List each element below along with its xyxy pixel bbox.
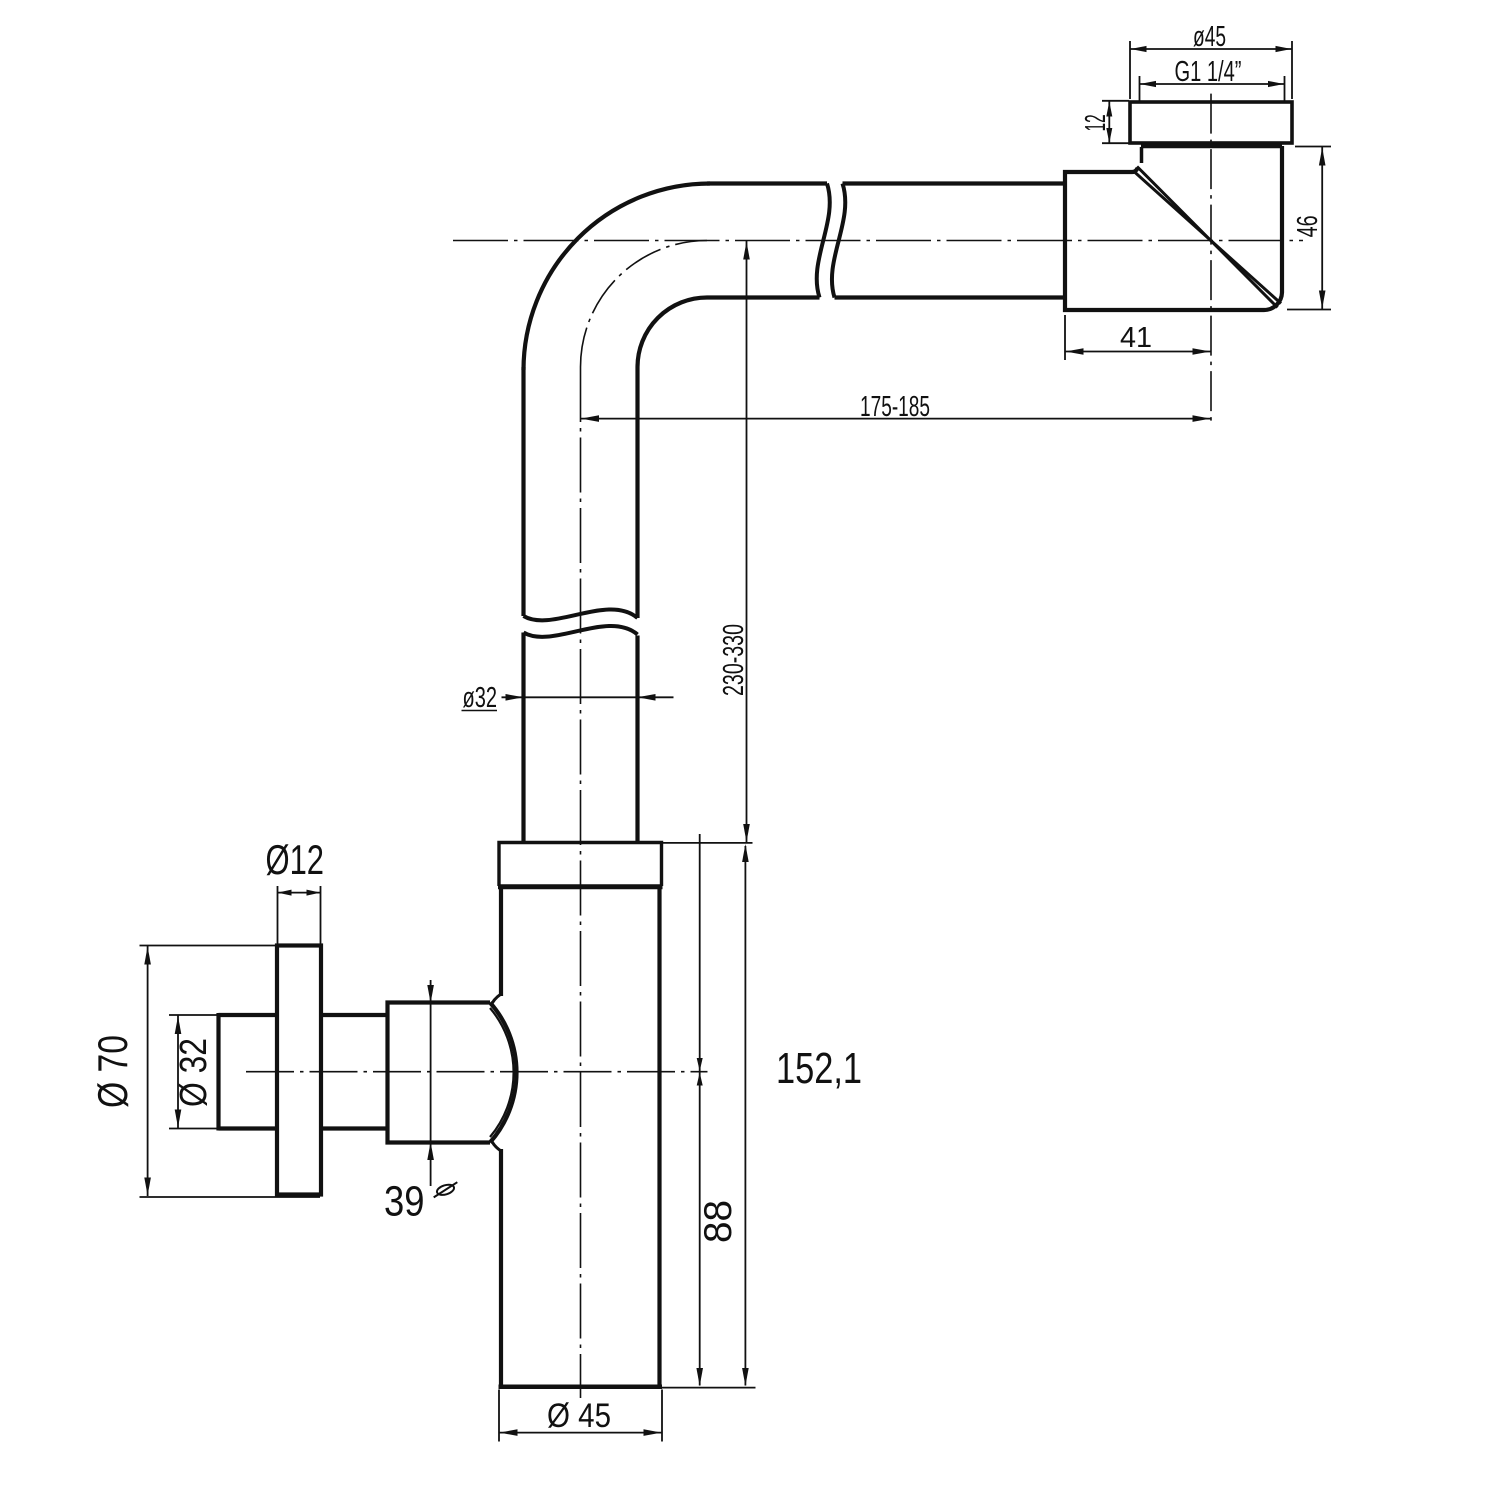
dim Ø32 pipe arrow right — [638, 694, 656, 701]
centerline vertical pipe / trap body axis — [580, 367, 582, 1398]
centerline outlet fitting axis — [1210, 94, 1212, 425]
trap cap seal thick line — [498, 884, 663, 889]
svg-text:230-330: 230-330 — [718, 624, 750, 696]
trap body left wall upper — [499, 889, 503, 996]
dim 46 arrow bottom — [1319, 291, 1326, 309]
vertical pipe left edge lower — [521, 633, 525, 844]
inlet nut bulge outer arc — [490, 1003, 517, 1143]
elbow inner arc — [638, 298, 708, 368]
horizontal pipe break squiggle right — [832, 184, 845, 298]
dim Ø32 pipe dim line — [502, 696, 674, 698]
trap body left wall lower — [499, 1149, 503, 1385]
dim 88 upper opposing arrow — [697, 1058, 703, 1071]
dim 39 small diameter symbol — [431, 1181, 460, 1198]
svg-text:46: 46 — [1292, 215, 1324, 237]
dim 230-330 arrow bottom — [743, 824, 750, 842]
dim Ø12 arrow left — [278, 890, 292, 896]
dim 41 dim line — [1065, 351, 1211, 353]
dim Ø45 top ext line left — [1129, 41, 1131, 99]
dim 39 dim line — [430, 980, 432, 1186]
elbow outer arc — [524, 184, 711, 371]
dim G1 dim line — [1140, 83, 1285, 85]
inlet nut bulge inner arc — [490, 1008, 514, 1137]
svg-text:Ø 70: Ø 70 — [89, 1035, 136, 1108]
dim Ø45 body arrow right — [644, 1429, 662, 1436]
dim 88 arrow at centerline — [697, 1073, 703, 1086]
horizontal pipe top edge right segment — [843, 181, 1066, 185]
dim Ø70 dim line — [147, 946, 149, 1196]
dim 12 ext line bottom — [1102, 142, 1129, 144]
ext line trap body bottom — [662, 1387, 756, 1389]
dim Ø12 ext line left — [277, 886, 279, 944]
dim G1 ext line left — [1139, 76, 1141, 101]
inlet bulge top fillet — [491, 994, 501, 1006]
svg-text:Ø 45: Ø 45 — [547, 1397, 611, 1435]
horizontal pipe top edge left segment — [707, 181, 827, 185]
svg-text:12: 12 — [1080, 114, 1112, 131]
trap cap outline — [499, 843, 662, 887]
svg-text:39: 39 — [384, 1178, 425, 1226]
outlet fitting miter seam line 1 — [1137, 167, 1278, 308]
dim 12 arrow top — [1106, 102, 1112, 117]
dim 88 arrow bottom — [696, 1368, 703, 1386]
dim 230-330 arrow top — [743, 242, 750, 260]
dim 46 arrow top — [1319, 148, 1326, 166]
dim Ø32 pipe arrow left — [506, 694, 524, 701]
outlet fitting body outline — [1065, 146, 1282, 310]
dim Ø12 ext line right — [320, 886, 322, 944]
svg-text:41: 41 — [1120, 322, 1152, 354]
ext line trap cap top — [662, 842, 753, 844]
dim Ø45 top ext line right — [1291, 41, 1293, 99]
outlet fitting body corner — [1132, 168, 1138, 172]
dim 46 ext line bottom — [1287, 309, 1331, 311]
svg-text:Ø12: Ø12 — [266, 836, 325, 883]
wall stub bottom edge — [219, 1126, 278, 1130]
trap body right wall — [657, 889, 661, 1385]
dim G1 arrow right — [1268, 81, 1284, 87]
dim Ø32 stub dim line — [177, 1016, 179, 1129]
wall flange rosette — [277, 946, 321, 1195]
vertical pipe right edge upper — [635, 367, 639, 618]
vertical pipe break squiggle lower — [524, 626, 638, 637]
dim 46 ext line top — [1295, 146, 1331, 148]
dim 152,1 arrow bottom — [742, 1368, 749, 1386]
vertical pipe break squiggle upper — [524, 610, 638, 621]
dim Ø70 arrow top — [144, 947, 151, 965]
wall stub top edge — [219, 1013, 278, 1017]
horizontal pipe break squiggle left — [817, 184, 830, 298]
dim 41 ext line left — [1064, 315, 1066, 360]
dim Ø32 stub arrow top — [175, 1016, 182, 1034]
dim 230-330 dim line — [746, 241, 748, 843]
dim Ø45 top dim line — [1130, 48, 1292, 50]
svg-text:ø45: ø45 — [1193, 21, 1226, 53]
inlet nut outline — [388, 1003, 491, 1143]
dim Ø45 body dim line — [499, 1432, 662, 1434]
svg-text:Ø 32: Ø 32 — [173, 1038, 215, 1107]
outlet fitting miter seam line 2 — [1134, 172, 1281, 304]
dim Ø45 body arrow left — [500, 1429, 518, 1436]
dim 12 ext line top — [1102, 100, 1129, 102]
outlet fitting nut lower edge bar — [1141, 143, 1282, 148]
dim G1 arrow left — [1140, 81, 1156, 87]
dim Ø45 top arrow right — [1276, 46, 1292, 52]
dim 88 dim line — [699, 834, 701, 1386]
dim Ø70 ext line bottom — [140, 1196, 321, 1198]
vertical pipe left edge upper — [521, 367, 525, 616]
dim Ø12 arrow right — [307, 890, 321, 896]
horizontal pipe bottom edge left segment — [707, 295, 820, 299]
dim Ø45 body ext line left — [498, 1390, 500, 1442]
svg-text:88: 88 — [697, 1200, 740, 1243]
inlet pipe top edge — [321, 1013, 388, 1017]
inlet pipe bottom edge — [321, 1126, 388, 1130]
centerline elbow arc — [581, 241, 708, 368]
dim 41 arrow right — [1193, 348, 1211, 355]
outlet fitting neck left — [1140, 147, 1144, 163]
trap body bottom edge — [499, 1385, 663, 1390]
dim 175-185 arrow right — [1193, 415, 1211, 422]
dim G1 ext line right — [1284, 76, 1286, 101]
dim 39 arrow top — [427, 985, 434, 1003]
dim 175-185 arrow left — [581, 415, 599, 422]
dim Ø45 body ext line right — [661, 1390, 663, 1442]
centerline trap inlet axis — [246, 1071, 708, 1073]
dim 12 dim line — [1108, 101, 1110, 144]
wall stub end cap — [216, 1013, 220, 1131]
svg-text:G1 1/4”: G1 1/4” — [1175, 56, 1242, 88]
dim Ø32 stub ext bottom — [169, 1128, 218, 1130]
svg-text:175-185: 175-185 — [860, 391, 930, 423]
dim 39 arrow bottom — [427, 1142, 434, 1160]
dim Ø12 dim line — [277, 892, 321, 894]
dim Ø70 arrow bottom — [144, 1178, 151, 1196]
vertical pipe right edge lower — [635, 636, 639, 844]
svg-text:ø32: ø32 — [463, 682, 498, 714]
outlet fitting nut G1 1/4 — [1130, 102, 1292, 143]
dim 152,1 dim line — [744, 846, 746, 1386]
dim 12 arrow bottom — [1106, 128, 1112, 143]
dim Ø70 ext line top — [140, 945, 277, 947]
dim Ø32 stub arrow bottom — [175, 1110, 182, 1128]
dim Ø32 stub ext top — [169, 1014, 218, 1016]
centerline horizontal pipe axis — [453, 240, 1303, 242]
horizontal pipe bottom edge right segment — [835, 295, 1066, 299]
dim 152,1 arrow top — [742, 844, 749, 862]
dim Ø45 top arrow left — [1131, 46, 1147, 52]
dim 41 arrow left — [1066, 348, 1084, 355]
inlet bulge bottom fillet — [491, 1139, 501, 1151]
svg-text:152,1: 152,1 — [776, 1044, 862, 1093]
dim text Ø32 underline — [462, 710, 498, 712]
dim 46 dim line — [1321, 147, 1323, 309]
dim 175-185 dim line — [581, 418, 1212, 420]
